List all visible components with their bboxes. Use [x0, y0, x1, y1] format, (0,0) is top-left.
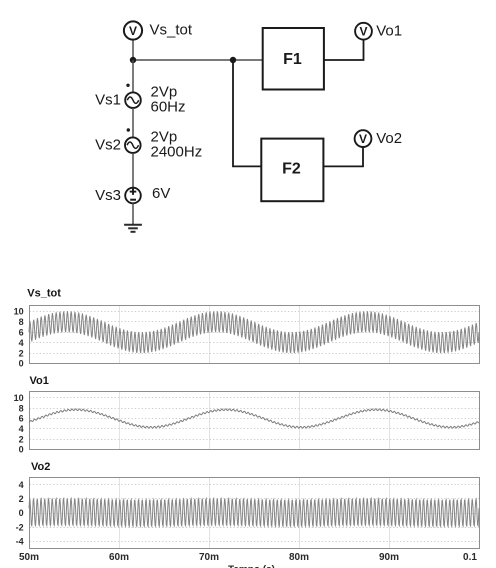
label Vo1 — [376, 23, 402, 40]
y axis labels Vo2 — [16, 480, 24, 547]
plot frame Vo1 — [30, 392, 480, 450]
svg-text:6: 6 — [19, 327, 24, 337]
svg-text:2: 2 — [19, 348, 24, 358]
svg-text:Vo2: Vo2 — [376, 130, 402, 147]
svg-text:50m: 50m — [19, 552, 39, 563]
voltmeter V (Vo2) — [355, 130, 372, 147]
svg-text:0: 0 — [19, 359, 24, 369]
svg-text:Vo1: Vo1 — [30, 375, 49, 387]
svg-text:4: 4 — [19, 480, 24, 490]
label Vs2 — [95, 137, 121, 154]
plot title Vo1 — [30, 375, 49, 387]
value label 6V — [152, 185, 170, 202]
svg-text:Vs2: Vs2 — [95, 137, 121, 154]
block F1 — [263, 28, 324, 90]
plot title Vs_tot — [27, 288, 61, 300]
svg-text:0: 0 — [19, 445, 24, 455]
wire: F1 output to Vo1 meter — [324, 40, 364, 60]
svg-text:Vs_tot: Vs_tot — [27, 288, 61, 300]
label Vs1 — [95, 92, 121, 109]
waveform Vo1 — [29, 409, 479, 428]
source Vs1 (AC 2Vp 60Hz) — [125, 92, 141, 108]
plot title Vo2 — [31, 461, 50, 473]
plot frame Vs_tot — [30, 306, 480, 364]
label Vs3 — [95, 187, 121, 204]
svg-text:-2: -2 — [16, 522, 24, 532]
source Vs3 (DC 6V) — [125, 188, 141, 204]
svg-text:V: V — [359, 25, 367, 39]
source Vs2 (AC 2Vp 2400Hz) — [125, 137, 141, 153]
wire: node B down and to F2 input — [233, 60, 261, 166]
svg-text:Vo2: Vo2 — [31, 461, 50, 473]
waveform Vs_tot — [29, 311, 479, 353]
svg-text:10: 10 — [14, 393, 24, 403]
wire: Vs2 to Vs3 — [132, 153, 134, 188]
svg-text:90m: 90m — [379, 552, 399, 563]
node B (junction dot) — [230, 57, 236, 63]
svg-text:8: 8 — [19, 317, 24, 327]
ground — [124, 225, 142, 232]
svg-text:6: 6 — [19, 414, 24, 424]
x axis labels — [19, 552, 477, 563]
svg-text:V: V — [129, 24, 137, 38]
svg-text:80m: 80m — [289, 552, 309, 563]
svg-text:Vs_tot: Vs_tot — [150, 22, 193, 39]
node A (junction dot) — [130, 57, 136, 63]
svg-text:-4: -4 — [16, 537, 24, 547]
y axis labels Vo1 — [14, 393, 24, 455]
svg-text:70m: 70m — [199, 552, 219, 563]
polarity dot Vs2 — [127, 128, 130, 131]
voltmeter V (Vo1) — [355, 23, 372, 40]
svg-text:4: 4 — [19, 338, 24, 348]
polarity dot Vs1 — [126, 84, 129, 87]
svg-text:Vo1: Vo1 — [376, 23, 402, 40]
svg-text:2400Hz: 2400Hz — [151, 143, 203, 160]
svg-text:2: 2 — [19, 494, 24, 504]
value label 2Vp 60Hz — [151, 83, 186, 115]
wire: Vs_tot meter to node A — [132, 40, 134, 60]
waveform Vo2 — [29, 499, 479, 527]
svg-text:0.1: 0.1 — [463, 552, 477, 563]
wire: F2 output to Vo2 meter — [323, 147, 363, 166]
svg-text:V: V — [359, 132, 367, 146]
label Vo2 — [376, 130, 402, 147]
value label 2Vp 2400Hz — [151, 128, 203, 160]
svg-text:60m: 60m — [109, 552, 129, 563]
svg-text:4: 4 — [19, 424, 24, 434]
svg-text:0: 0 — [19, 508, 24, 518]
svg-text:8: 8 — [19, 403, 24, 413]
wire: Vs3 to ground — [132, 203, 134, 224]
svg-text:Vs3: Vs3 — [95, 187, 121, 204]
svg-text:F2: F2 — [282, 161, 301, 178]
voltmeter V (Vs_tot) — [124, 21, 142, 39]
svg-text:10: 10 — [14, 307, 24, 317]
wire: horizontal bus node A to F1 input — [133, 59, 263, 61]
y axis labels Vs_tot — [14, 307, 24, 369]
block F2 — [261, 139, 323, 202]
svg-text:F1: F1 — [283, 51, 302, 68]
svg-text:Vs1: Vs1 — [95, 92, 121, 109]
svg-text:6V: 6V — [152, 185, 170, 202]
svg-text:Tempo (s): Tempo (s) — [228, 565, 275, 568]
svg-text:2: 2 — [19, 434, 24, 444]
wire: Vs1 to Vs2 — [132, 108, 134, 137]
label Vs_tot — [150, 22, 193, 39]
wire: node A to Vs1 — [132, 60, 134, 92]
svg-text:60Hz: 60Hz — [151, 99, 186, 116]
x axis title Tempo (s) — [228, 565, 275, 568]
plot frame Vo2 — [30, 478, 480, 549]
